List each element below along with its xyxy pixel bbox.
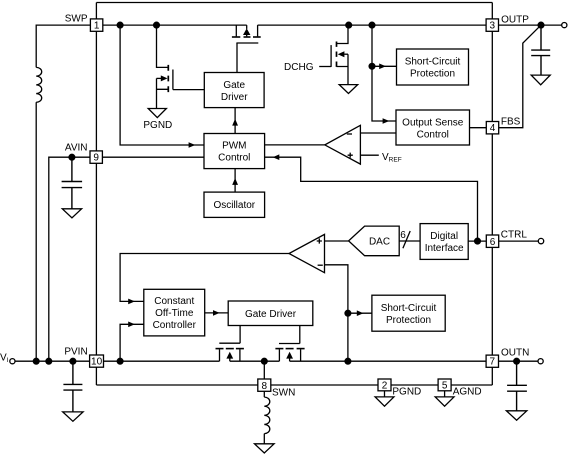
svg-text:2: 2 <box>382 381 388 392</box>
svg-text:Gate Driver: Gate Driver <box>245 309 297 320</box>
gate driver U2 box <box>204 73 264 108</box>
op-amp U7 error comparator <box>325 125 361 164</box>
pin 2 PGND box <box>378 379 391 391</box>
node junction short-circuit tap <box>369 63 375 69</box>
svg-text:Constant: Constant <box>154 296 194 307</box>
inductor L2 SWN <box>264 397 270 434</box>
transistor Q3 source to ground <box>337 54 349 84</box>
transistor Q5 body arrow <box>289 359 291 362</box>
ground below Q3 <box>339 85 358 94</box>
svg-text:PGND: PGND <box>143 120 172 131</box>
transistor Q5 right terminal <box>300 349 302 361</box>
wire OUTP rail from Q1 to pin 3 <box>258 24 487 26</box>
svg-text:PWM: PWM <box>222 141 246 152</box>
node junction OUTP rail x=372 <box>369 22 375 28</box>
svg-text:DCHG: DCHG <box>284 62 314 73</box>
svg-text:10: 10 <box>91 357 103 368</box>
svg-text:DAC: DAC <box>369 236 390 247</box>
PWM control U3 box <box>204 134 265 169</box>
node junction inductor at VI rail <box>33 358 39 364</box>
capacitor C2 AVIN <box>62 157 83 209</box>
node junction short-circuit tap 2 <box>345 310 351 316</box>
ground PGND symbol below Q2 <box>148 109 166 118</box>
svg-text:OUTP: OUTP <box>501 15 529 26</box>
wire digital interface to pin 6 <box>468 240 486 242</box>
svg-text:AGND: AGND <box>453 387 482 398</box>
transistor Q4 low-side left terminal <box>219 349 221 361</box>
wire Q5 gate to gate driver U13 <box>299 326 301 344</box>
wire L2 to ground <box>263 434 265 444</box>
arrowhead up into gate driver <box>232 119 238 126</box>
arrowhead into output sense control <box>383 118 390 124</box>
svg-text:Gate: Gate <box>223 80 245 91</box>
node junction CTRL net <box>475 238 481 244</box>
transistor Q3 contact bars <box>336 42 338 67</box>
arrowhead into gate driver U13 <box>213 310 220 316</box>
wire pin 6 to CTRL terminal <box>499 240 539 242</box>
short-circuit protection U11 box <box>372 295 445 331</box>
transistor Q5 low-side left terminal <box>278 349 280 361</box>
IC boundary bottom edge segments <box>96 384 492 386</box>
node junction OUTN rail comparator tap <box>345 358 351 364</box>
U10 minus symbol <box>318 264 323 266</box>
bus slash mark <box>403 231 410 248</box>
pin 1 SWP box <box>90 19 102 31</box>
svg-text:CTRL: CTRL <box>501 229 528 240</box>
wire U7 plus input from VREF <box>360 154 378 156</box>
node junction AVIN line at VI rail <box>46 358 52 364</box>
svg-text:9: 9 <box>93 153 99 164</box>
svg-text:Short-Circuit: Short-Circuit <box>381 303 437 314</box>
svg-text:4: 4 <box>490 123 496 134</box>
ground below C2 <box>62 209 81 218</box>
pin 7 OUTN box <box>486 355 498 367</box>
node junction OUTP rail x=349 <box>346 22 352 28</box>
svg-text:3: 3 <box>490 21 496 32</box>
svg-text:VREF: VREF <box>382 152 402 164</box>
wire Q1 gate to gate driver U2 <box>236 43 238 73</box>
arrowhead up into PWM control <box>232 178 238 185</box>
pin 3 OUTP box <box>486 19 498 31</box>
DAC U8 symbol <box>349 226 400 256</box>
gate driver U13 box <box>228 301 313 326</box>
svg-text:SWP: SWP <box>65 13 88 24</box>
transistor Q2 PGND discharge drain <box>157 25 169 67</box>
ground below L2 <box>255 444 275 453</box>
svg-text:Control: Control <box>218 153 250 164</box>
arrowhead into COT controller input 2 <box>128 322 135 328</box>
pin 4 FBS box <box>486 122 498 134</box>
IC boundary left edge segments <box>95 3 97 386</box>
wire to short-circuit protection U4 <box>372 65 397 67</box>
IC boundary outline top edge <box>96 2 492 4</box>
wire Q2 gate to gate driver U2 <box>173 89 204 91</box>
transistor Q4 right terminal <box>239 349 241 361</box>
capacitor C1 OUTP <box>531 25 550 75</box>
wire PVIN sense to COT controller input 2 <box>120 324 144 361</box>
pin 9 AVIN box <box>90 151 102 163</box>
svg-text:Controller: Controller <box>153 320 197 331</box>
U7 minus symbol <box>347 133 352 135</box>
svg-text:Control: Control <box>417 130 449 141</box>
node junction VI capacitor <box>70 358 76 364</box>
transistor Q2 contact bars <box>167 65 169 92</box>
wire VI to pin 10 <box>15 360 90 362</box>
wire pin 8 to inductor L2 <box>263 391 265 397</box>
inductor L1 input filter <box>36 67 42 102</box>
wire SWN rail between low-side FETs <box>230 360 280 362</box>
ground below pin 2 PGND <box>384 391 386 397</box>
svg-text:PGND: PGND <box>392 387 421 398</box>
OUTP terminal circle <box>562 23 567 28</box>
wire U10 output to constant off-time controller <box>120 254 289 302</box>
capacitor C4 OUTN <box>507 361 527 411</box>
svg-text:SWN: SWN <box>272 387 295 398</box>
wire pin 3 to OUTP terminal <box>499 24 562 26</box>
wire SWP sense x=120 down to PWM control <box>120 25 204 145</box>
svg-text:AVIN: AVIN <box>65 143 88 154</box>
oscillator U6 box <box>204 192 265 217</box>
transistor Q2 source to ground <box>157 78 169 108</box>
svg-text:Oscillator: Oscillator <box>213 200 255 211</box>
wire pin 7 to OUTN terminal <box>499 360 539 362</box>
output sense control U5 box <box>396 110 470 145</box>
wire PVIN rail pin 10 to low-side FET <box>104 360 220 362</box>
wire sense line x=372 down to output sense control <box>372 25 396 121</box>
transistor Q1 body arrow <box>246 25 248 36</box>
node junction on SWP rail x=156 <box>154 22 160 28</box>
wire COT controller to gate driver U13 <box>205 312 229 314</box>
wire SWP external to inductor <box>36 25 90 67</box>
VI terminal circle <box>10 359 15 364</box>
arrowhead into PWM control left <box>189 142 196 148</box>
wire U10 minus input from OUTN rail <box>325 265 348 361</box>
pin 10 PVIN box <box>90 355 104 367</box>
node AVIN junction <box>69 154 75 160</box>
node OUTP external junction <box>538 22 544 28</box>
wire U7 minus input from output sense control <box>360 132 396 134</box>
digital interface U9 box <box>420 224 468 260</box>
svg-text:7: 7 <box>490 357 496 368</box>
wire OUTN rail from Q5 to pin 7 <box>290 360 487 362</box>
arrowhead into COT controller input 1 <box>128 299 135 305</box>
wire U7 output to PWM control <box>265 144 325 146</box>
ground below C3 <box>63 412 83 421</box>
svg-text:Driver: Driver <box>221 92 248 103</box>
arrowhead into U11 <box>357 310 364 316</box>
transistor Q3 DCHG drain <box>337 25 349 43</box>
svg-text:Protection: Protection <box>410 69 455 80</box>
ground below C1 <box>531 75 550 85</box>
node junction PVIN rail x=120 <box>117 358 123 364</box>
wire CTRL feedback into PWM control right <box>265 157 478 241</box>
pin 5 AGND box <box>438 379 451 391</box>
wire PWM control to gate driver <box>234 108 236 134</box>
ground below pin 5 AGND <box>444 391 446 397</box>
svg-text:6: 6 <box>490 237 496 248</box>
wire AVIN external <box>49 157 90 361</box>
svg-text:Interface: Interface <box>425 243 464 254</box>
transistor Q2 gate plate <box>172 70 174 90</box>
capacitor C3 VI input <box>63 361 82 412</box>
wire AVIN pin 9 to PWM control <box>102 156 204 158</box>
transistor Q1 high-side PMOS left terminal <box>235 25 237 36</box>
OUTN terminal circle <box>538 359 543 364</box>
arrowhead left into PWM control <box>273 154 280 160</box>
arrowhead into U4 <box>379 64 386 70</box>
svg-text:PVIN: PVIN <box>64 347 87 358</box>
U7 plus symbol <box>348 153 353 158</box>
transistor Q5 gate plate <box>279 343 300 345</box>
constant off-time controller U12 box <box>144 289 205 336</box>
wire SWP rail from pin 1 to high-side FET <box>103 24 247 26</box>
wire DCHG gate input <box>319 66 331 68</box>
svg-text:6: 6 <box>400 230 406 241</box>
bus wire DAC to digital interface <box>399 240 420 242</box>
transistor Q4 body arrow <box>229 359 231 362</box>
node OUTN external junction <box>514 358 520 364</box>
CTRL terminal circle <box>538 238 543 243</box>
transistor Q1 gate plate <box>236 42 258 44</box>
svg-text:8: 8 <box>262 381 268 392</box>
wire U5 to pin 4 FBS <box>470 127 487 129</box>
IC boundary right edge segments <box>491 3 493 386</box>
svg-text:Short-Circuit: Short-Circuit <box>405 57 461 68</box>
U10 plus symbol <box>317 238 322 243</box>
op-amp U10 output comparator <box>289 234 325 272</box>
transistor Q3 body arrow <box>344 53 348 55</box>
wire oscillator to PWM control <box>234 169 236 193</box>
pin 6 CTRL box <box>486 235 498 247</box>
node junction SWN <box>261 358 267 364</box>
transistor Q1 right terminal <box>257 25 259 36</box>
svg-text:Digital: Digital <box>430 231 458 242</box>
short-circuit protection U4 box <box>397 49 469 85</box>
wire FBS feedback from OUTP node to pin 4 <box>499 25 541 128</box>
wire SWN node down to pin 8 <box>263 361 265 379</box>
svg-text:Protection: Protection <box>386 315 431 326</box>
svg-text:OUTN: OUTN <box>501 347 529 358</box>
svg-text:Output Sense: Output Sense <box>402 118 464 129</box>
transistor Q4 gate plate <box>219 342 240 344</box>
ground below C4 <box>506 411 526 420</box>
pin 8 SWN box <box>258 379 271 391</box>
wire to short-circuit protection U11 <box>348 312 372 314</box>
svg-text:Off-Time: Off-Time <box>155 308 194 319</box>
node junction on SWP rail x=120 <box>117 22 123 28</box>
transistor Q3 gate plate <box>330 45 332 67</box>
svg-text:1: 1 <box>94 21 100 32</box>
wire U10 plus input from DAC <box>325 240 349 242</box>
svg-text:VI: VI <box>0 352 9 364</box>
wire Q4 gate to gate driver U13 <box>239 326 241 344</box>
svg-text:FBS: FBS <box>501 116 521 127</box>
svg-text:5: 5 <box>442 381 448 392</box>
wire inductor to VI rail <box>35 102 37 361</box>
transistor Q2 body arrow <box>157 77 162 79</box>
